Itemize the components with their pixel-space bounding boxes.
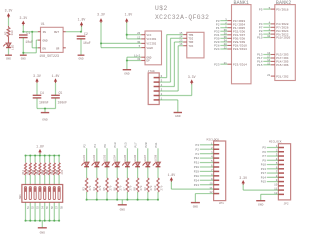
svg-text:P2: P2 — [196, 148, 200, 151]
svg-text:270: 270 — [109, 185, 112, 190]
svg-text:R13: R13 — [31, 169, 34, 174]
svg-text:P31/IO7: P31/IO7 — [233, 33, 245, 37]
svg-text:SW1: SW1 — [19, 194, 22, 199]
svg-text:LED1: LED1 — [83, 154, 86, 161]
svg-text:P32: P32 — [214, 30, 220, 33]
svg-text:P23: P23 — [194, 184, 199, 187]
svg-text:P29: P29 — [214, 41, 220, 44]
svg-text:1.8V: 1.8V — [168, 173, 176, 177]
svg-text:100: 100 — [11, 30, 14, 35]
svg-text:P23/IO14: P23/IO14 — [233, 62, 247, 66]
svg-text:GND: GND — [120, 208, 126, 211]
svg-text:P31: P31 — [194, 162, 199, 165]
svg-text:P1: P1 — [216, 27, 220, 30]
svg-text:P3: P3 — [216, 20, 220, 23]
svg-text:P28: P28 — [214, 45, 220, 48]
svg-text:LED6: LED6 — [134, 154, 137, 161]
svg-text:270: 270 — [61, 169, 64, 174]
svg-text:VCCIO2: VCCIO2 — [147, 43, 157, 46]
svg-text:P6: P6 — [263, 151, 267, 154]
svg-text:P17/IO4: P17/IO4 — [276, 56, 288, 60]
svg-text:VAUX: VAUX — [147, 47, 154, 50]
svg-text:270: 270 — [160, 185, 163, 190]
svg-text:GND: GND — [40, 231, 46, 234]
svg-text:GND: GND — [78, 57, 83, 60]
svg-text:P30: P30 — [214, 38, 220, 41]
svg-text:R9: R9 — [144, 187, 147, 191]
svg-text:U$2: U$2 — [155, 5, 168, 12]
svg-text:R15: R15 — [41, 169, 44, 174]
svg-text:P5: P5 — [263, 147, 267, 150]
svg-text:R11: R11 — [22, 169, 25, 174]
svg-text:P15: P15 — [257, 64, 263, 67]
svg-text:C4: C4 — [40, 91, 44, 95]
svg-text:P31: P31 — [155, 142, 158, 147]
svg-text:EN: EN — [43, 48, 47, 51]
svg-text:P15: P15 — [261, 181, 266, 184]
svg-text:3.3V: 3.3V — [188, 75, 196, 79]
svg-text:R16: R16 — [46, 169, 49, 174]
svg-text:R18: R18 — [55, 169, 58, 174]
svg-text:P15/IO6: P15/IO6 — [276, 63, 288, 67]
svg-text:R10: R10 — [154, 185, 157, 190]
svg-text:10: 10 — [274, 183, 278, 186]
svg-text:VCC: VCC — [147, 34, 152, 37]
svg-text:MICLOCK: MICLOCK — [269, 140, 282, 143]
svg-text:P24/IO13: P24/IO13 — [233, 47, 247, 51]
svg-text:P32/IO6: P32/IO6 — [233, 29, 245, 33]
svg-text:P17: P17 — [135, 142, 138, 147]
svg-text:P13: P13 — [124, 142, 127, 147]
svg-text:270: 270 — [140, 185, 143, 190]
svg-text:1V8_SOT223: 1V8_SOT223 — [39, 54, 59, 58]
svg-text:P1: P1 — [196, 153, 200, 156]
svg-text:P14/IO5: P14/IO5 — [276, 60, 288, 64]
svg-text:XC2C32A-QFG32: XC2C32A-QFG32 — [155, 14, 209, 21]
svg-text:P7/IO26: P7/IO26 — [276, 26, 288, 30]
svg-text:P1/IO35: P1/IO35 — [233, 26, 245, 30]
svg-text:VCCIO1: VCCIO1 — [147, 38, 157, 41]
svg-text:JP1: JP1 — [219, 202, 224, 205]
svg-text:P2: P2 — [216, 23, 220, 26]
svg-text:JP2: JP2 — [284, 203, 289, 206]
svg-text:P4/IO28: P4/IO28 — [276, 22, 288, 26]
svg-text:U1: U1 — [41, 22, 45, 26]
svg-text:GND: GND — [43, 40, 48, 43]
svg-text:100nF: 100nF — [58, 100, 68, 104]
svg-text:270: 270 — [99, 185, 102, 190]
svg-text:R2: R2 — [4, 31, 7, 35]
svg-text:R17: R17 — [51, 169, 54, 174]
svg-text:LED7: LED7 — [144, 154, 147, 161]
svg-text:P14: P14 — [261, 176, 266, 179]
svg-text:GND: GND — [42, 119, 48, 122]
svg-text:P32: P32 — [194, 157, 199, 160]
svg-text:P9: P9 — [263, 159, 267, 162]
svg-text:GND: GND — [6, 57, 11, 60]
svg-text:100nF: 100nF — [39, 100, 49, 104]
svg-text:OUT: OUT — [54, 31, 59, 34]
svg-text:C5: C5 — [59, 91, 63, 95]
svg-text:P3: P3 — [196, 144, 200, 147]
svg-text:270: 270 — [130, 185, 133, 190]
svg-text:3.3V: 3.3V — [19, 16, 27, 20]
svg-text:P10: P10 — [114, 142, 117, 147]
svg-text:LED8: LED8 — [154, 154, 157, 161]
svg-text:C2: C2 — [84, 32, 88, 36]
svg-text:3.3V: 3.3V — [33, 74, 41, 78]
svg-text:1.8V: 1.8V — [78, 17, 86, 21]
svg-text:270: 270 — [89, 185, 92, 190]
svg-text:TMS: TMS — [188, 34, 193, 37]
svg-text:P29/IO9: P29/IO9 — [233, 40, 245, 44]
svg-text:R6: R6 — [113, 187, 116, 191]
svg-text:P23: P23 — [214, 63, 220, 66]
svg-text:P21/IO2: P21/IO2 — [276, 74, 288, 78]
svg-text:P9/IO22: P9/IO22 — [276, 32, 288, 36]
svg-text:1.8V: 1.8V — [36, 145, 44, 149]
svg-text:P5: P5 — [259, 8, 263, 11]
svg-text:P5/IO16: P5/IO16 — [276, 7, 288, 11]
svg-text:P10: P10 — [257, 37, 263, 40]
svg-text:3.3V: 3.3V — [239, 176, 247, 180]
svg-text:GND: GND — [175, 115, 181, 118]
svg-text:LED4: LED4 — [114, 154, 117, 161]
svg-text:P28/IO10: P28/IO10 — [233, 44, 247, 48]
svg-text:GND: GND — [124, 73, 130, 76]
svg-text:P28: P28 — [145, 142, 148, 147]
svg-text:GR: GR — [56, 48, 60, 51]
svg-text:TCK: TCK — [188, 45, 193, 48]
svg-text:P28: P28 — [194, 175, 199, 178]
svg-text:P30: P30 — [194, 166, 199, 169]
svg-text:IN: IN — [43, 31, 47, 34]
svg-text:R14: R14 — [36, 169, 39, 174]
svg-text:TDI: TDI — [188, 38, 193, 41]
svg-text:P24: P24 — [214, 48, 220, 51]
svg-text:LED3: LED3 — [103, 154, 106, 161]
svg-text:R12: R12 — [27, 169, 30, 174]
svg-text:LED: LED — [11, 45, 14, 50]
svg-text:P24: P24 — [194, 179, 199, 182]
svg-text:P3/IO33: P3/IO33 — [233, 19, 245, 23]
svg-text:R4: R4 — [93, 187, 96, 191]
svg-text:P2/IO34: P2/IO34 — [233, 22, 245, 26]
svg-text:LED2: LED2 — [93, 154, 96, 161]
svg-text:P30/IO8: P30/IO8 — [233, 37, 245, 41]
svg-text:R5: R5 — [103, 187, 106, 191]
svg-text:P13: P13 — [261, 168, 266, 171]
svg-text:P2: P2 — [84, 144, 87, 148]
svg-text:EP: EP — [147, 60, 151, 63]
svg-text:P6: P6 — [104, 144, 107, 148]
svg-text:P17: P17 — [261, 172, 266, 175]
svg-text:1.8V: 1.8V — [52, 74, 60, 78]
svg-text:GND: GND — [193, 206, 199, 209]
svg-text:GND: GND — [258, 204, 264, 207]
svg-text:21: 21 — [267, 74, 271, 77]
svg-text:P31: P31 — [214, 34, 220, 37]
svg-text:P29: P29 — [194, 171, 199, 174]
svg-text:270: 270 — [120, 185, 123, 190]
svg-text:3.3V: 3.3V — [5, 9, 13, 13]
svg-text:P13/IO3: P13/IO3 — [276, 53, 288, 57]
svg-text:P4: P4 — [94, 144, 97, 148]
svg-text:R8: R8 — [134, 187, 137, 191]
svg-text:270: 270 — [150, 185, 153, 190]
svg-text:GND: GND — [21, 57, 26, 60]
svg-text:1.8V: 1.8V — [125, 13, 133, 17]
svg-text:P10: P10 — [261, 164, 266, 167]
svg-text:10uF: 10uF — [83, 41, 91, 45]
svg-text:R7: R7 — [124, 187, 127, 191]
svg-text:P8/IO24: P8/IO24 — [276, 29, 288, 33]
svg-text:TDO: TDO — [188, 41, 193, 44]
svg-text:LED5: LED5 — [124, 154, 127, 161]
svg-text:3.3V: 3.3V — [97, 13, 105, 17]
svg-text:P7: P7 — [263, 155, 267, 158]
svg-text:P10/IO20: P10/IO20 — [276, 36, 290, 40]
svg-text:R3: R3 — [83, 187, 86, 191]
